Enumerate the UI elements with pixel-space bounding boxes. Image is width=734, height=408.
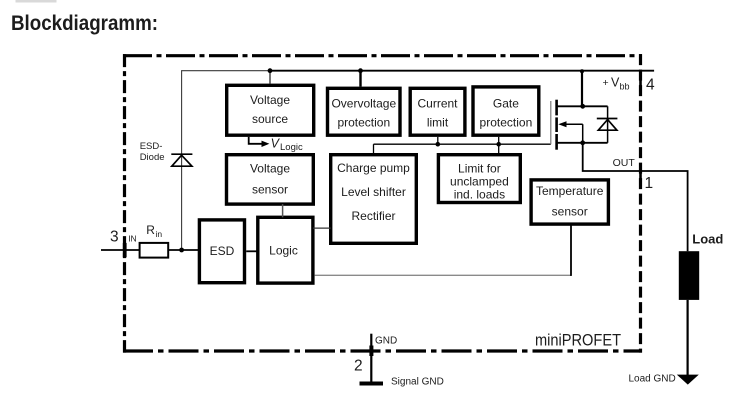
transistor: MOSFET gate line (gray)	[550, 101, 552, 144]
wire: temp sensor return line (gray)	[315, 274, 571, 276]
chip boundary dash-dot border	[123, 54, 642, 57]
box Voltage sensor	[227, 155, 314, 204]
wire: drop to Voltage source	[269, 71, 271, 84]
diode: cathode bar	[597, 118, 618, 120]
svg-text:IN: IN	[128, 234, 137, 244]
svg-text:Temperature: Temperature	[536, 184, 604, 198]
svg-text:Voltage: Voltage	[250, 93, 290, 107]
box Current limit	[410, 88, 465, 135]
box Charge pump / Level shifter / Rectifier	[331, 155, 417, 244]
svg-text:protection: protection	[337, 116, 390, 130]
wire: source horizontal	[558, 142, 608, 144]
svg-text:sensor: sensor	[552, 205, 588, 219]
box Voltage source	[227, 85, 314, 135]
svg-text:3: 3	[110, 229, 119, 246]
node: input junction	[179, 248, 184, 253]
pin 3 tick	[123, 243, 127, 257]
node: rail junction at drain	[580, 69, 584, 73]
wire: GND stub	[370, 334, 372, 384]
svg-text:ind. loads: ind. loads	[454, 188, 505, 202]
pin 1 tick	[639, 171, 642, 188]
wire: black +Vbb rail	[270, 70, 654, 72]
transistor: channel bars	[555, 100, 558, 116]
diode: triangle	[598, 120, 617, 131]
wire: voltage sensor to logic (gray)	[282, 204, 284, 217]
node: junction current limit	[436, 142, 441, 147]
box ESD	[199, 220, 244, 283]
wire: input line	[101, 249, 199, 251]
svg-text:unclamped: unclamped	[450, 175, 509, 189]
svg-text:2: 2	[354, 357, 363, 374]
svg-text:bb: bb	[620, 82, 630, 92]
wire: drop from Current limit	[437, 137, 439, 144]
svg-text:Signal GND: Signal GND	[391, 377, 444, 388]
wire: OUT line	[583, 143, 688, 251]
page artifact top-left	[16, 0, 57, 3]
svg-text:Overvoltage: Overvoltage	[331, 97, 396, 111]
wire: V_Logic arrow from voltage source	[249, 137, 262, 144]
svg-text:limit: limit	[427, 116, 449, 130]
svg-text:GND: GND	[375, 335, 397, 346]
node: source junction	[580, 140, 585, 145]
svg-text:Blockdiagramm:: Blockdiagramm:	[11, 12, 158, 35]
svg-text:R: R	[146, 223, 155, 237]
wire: logic to charge pump (gray)	[313, 227, 331, 229]
svg-text:Logic: Logic	[280, 142, 303, 153]
svg-text:in: in	[156, 229, 163, 239]
svg-text:source: source	[252, 112, 288, 126]
svg-text:Charge pump: Charge pump	[337, 161, 410, 175]
wire: drain horizontal	[558, 105, 608, 107]
svg-text:Diode: Diode	[140, 152, 165, 163]
wire: drop from Gate protection to Limit box	[498, 137, 500, 155]
svg-text:Load GND: Load GND	[629, 374, 676, 385]
svg-text:ESD: ESD	[210, 244, 235, 258]
pin 2 tick	[369, 346, 373, 357]
resistor R_in	[140, 243, 169, 258]
svg-text:Load: Load	[692, 232, 723, 247]
wire: drop to Overvoltage protection	[359, 71, 361, 87]
svg-text:Logic: Logic	[269, 244, 298, 258]
svg-text:Limit for: Limit for	[458, 162, 501, 176]
wire: row1 to row2 connector line	[374, 143, 551, 145]
node: junction gate protection	[496, 142, 501, 147]
wire: ESD to Logic	[246, 250, 258, 252]
svg-text:protection: protection	[480, 116, 533, 130]
svg-text:miniPROFET: miniPROFET	[535, 332, 621, 350]
node: drain junction	[580, 104, 585, 109]
svg-text:Level shifter: Level shifter	[341, 185, 406, 199]
ground: signal GND bar	[360, 382, 384, 386]
svg-text:ESD-: ESD-	[140, 141, 163, 152]
svg-text:Gate: Gate	[493, 97, 519, 111]
resistor: load block	[679, 251, 699, 300]
box Gate protection	[473, 87, 539, 135]
wire: gray supply wire from ESD diode up and to first junction	[182, 71, 270, 250]
diode ESD (cathode bar + triangle)	[171, 153, 192, 155]
ground: load GND arrow	[677, 375, 699, 385]
wire: drain drop from rail	[581, 71, 583, 107]
svg-text:1: 1	[645, 175, 654, 192]
wire: load to ground	[686, 300, 688, 375]
node: rail junction at overvoltage	[358, 68, 363, 73]
svg-text:OUT: OUT	[613, 157, 636, 169]
pin 4 tick	[639, 71, 642, 88]
svg-text:Rectifier: Rectifier	[351, 209, 395, 223]
box Temperature sensor	[531, 180, 608, 224]
box Overvoltage protection	[328, 88, 401, 135]
box Logic	[258, 217, 313, 283]
wire: body to source vertical	[582, 124, 584, 143]
svg-text:+: +	[603, 77, 609, 89]
box Limit for unclamped ind. loads	[438, 155, 520, 203]
svg-text:Voltage: Voltage	[250, 162, 290, 176]
svg-text:sensor: sensor	[252, 183, 288, 197]
svg-text:Current: Current	[417, 97, 458, 111]
diode: body diode vertical wire	[607, 106, 609, 143]
svg-text:4: 4	[646, 77, 655, 94]
node: rail junction at voltage source	[268, 68, 273, 73]
wire: drop into Charge pump	[373, 144, 375, 155]
transistor: body arrow	[560, 123, 583, 125]
